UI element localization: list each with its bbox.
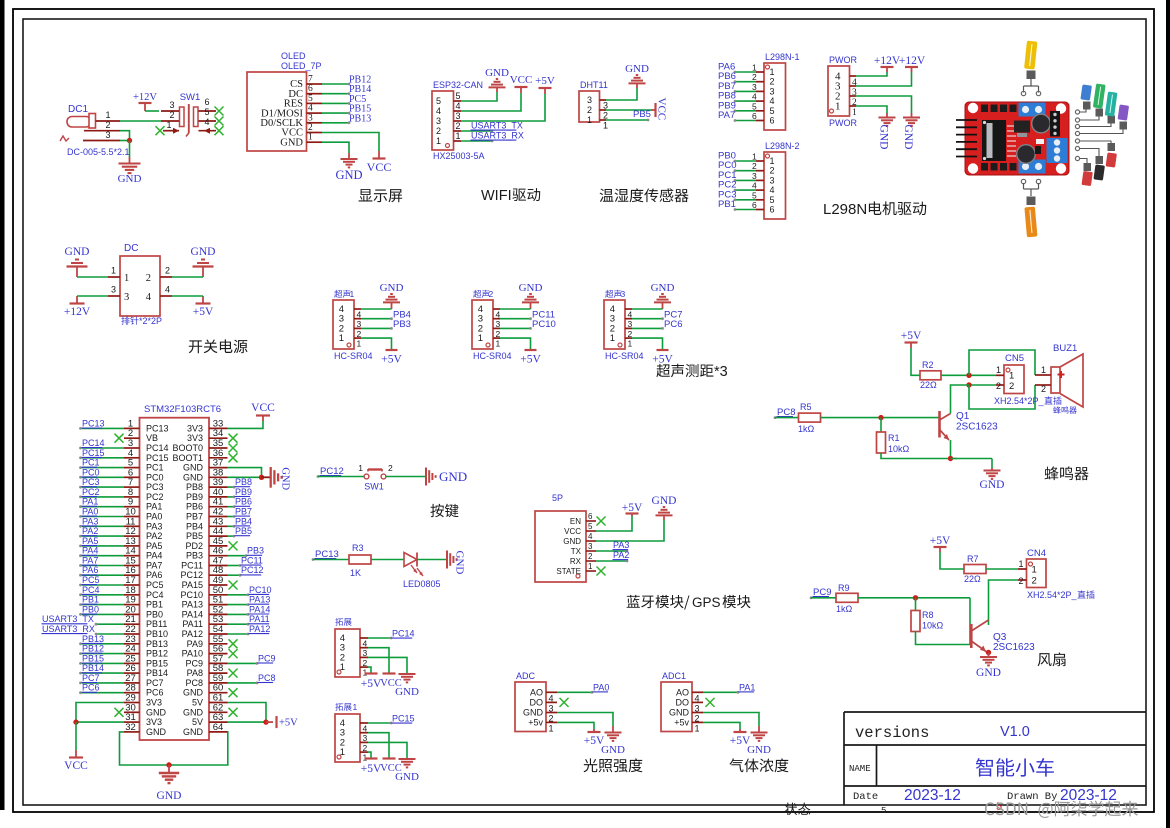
- net label PB6: [235, 497, 253, 507]
- svg-text:3: 3: [603, 101, 608, 111]
- svg-text:PB3: PB3: [247, 546, 264, 556]
- svg-text:PB15: PB15: [82, 653, 104, 663]
- pin 32 of U1 (GND): [124, 722, 167, 737]
- wire U1.32 GND bus: [120, 732, 170, 765]
- resistor R3 1K: [349, 543, 371, 578]
- svg-text:10kΩ: 10kΩ: [888, 444, 910, 454]
- svg-text:Date: Date: [853, 791, 878, 803]
- pin 37 of U1 (GND): [183, 458, 228, 473]
- svg-text:OLED: OLED: [281, 51, 306, 61]
- svg-text:6: 6: [308, 84, 313, 94]
- power +5V right: [266, 716, 298, 729]
- pin 1 of DHT11: [587, 115, 608, 131]
- svg-text:5V: 5V: [192, 698, 203, 708]
- svg-text:PA0: PA0: [82, 507, 98, 517]
- svg-text:GND: GND: [485, 67, 509, 79]
- net label PA13: [249, 595, 271, 605]
- pin 4 of OLED (D1/MOSI): [261, 104, 322, 120]
- svg-text:PC2: PC2: [146, 492, 164, 502]
- no-connect U1.49: [229, 581, 238, 590]
- svg-text:2: 2: [752, 72, 757, 82]
- svg-text:GND: GND: [280, 137, 303, 148]
- svg-text:PA11: PA11: [182, 619, 203, 629]
- svg-text:6: 6: [770, 116, 775, 126]
- pin 42 of U1 (PB7): [186, 507, 228, 522]
- pin 3 of 拓展: [340, 643, 368, 659]
- svg-text:3: 3: [111, 285, 116, 295]
- ground right of U1 (rotated): [262, 467, 291, 491]
- svg-text:1: 1: [1041, 365, 1046, 375]
- svg-text:+12V: +12V: [899, 55, 926, 67]
- net label PB9: [718, 100, 736, 111]
- net label PC15: [82, 448, 105, 458]
- svg-text:+12V: +12V: [133, 92, 157, 103]
- svg-text:PB1: PB1: [718, 199, 736, 210]
- svg-text:PC10: PC10: [180, 590, 203, 600]
- svg-text:R7: R7: [967, 554, 979, 564]
- wire DC.4 to +5V: [172, 295, 203, 297]
- svg-text:2: 2: [770, 166, 775, 176]
- svg-text:GND: GND: [335, 168, 362, 182]
- wire OLED pin to net PC5: [322, 102, 350, 105]
- svg-text:7: 7: [308, 75, 313, 85]
- wire ESP32.1 USART3_RX: [461, 140, 493, 143]
- net label PC2: [718, 180, 736, 191]
- svg-text:GND: GND: [146, 727, 167, 737]
- pin 63 of U1 (5V): [192, 712, 228, 727]
- svg-text:PB10: PB10: [146, 629, 168, 639]
- pin 3 of 超声1: [339, 314, 362, 330]
- pin 44 of U1 (PB5): [186, 526, 228, 541]
- svg-text:VCC: VCC: [510, 74, 533, 86]
- svg-text:CN4: CN4: [1027, 548, 1046, 559]
- section label 按键: [430, 504, 458, 517]
- pin 6 of SW1 (no connect): [199, 97, 224, 116]
- svg-text:3V3: 3V3: [187, 423, 203, 433]
- svg-text:2: 2: [165, 266, 170, 276]
- svg-text:2: 2: [996, 381, 1001, 391]
- svg-text:SW1: SW1: [180, 92, 201, 103]
- svg-text:+5V: +5V: [361, 678, 382, 690]
- pin 5 of ESP32-CAN: [436, 91, 461, 106]
- ground B below PWOR: [902, 113, 920, 149]
- wire R1 to emitter node: [881, 453, 957, 459]
- wire 超声3.2 net PC6: [632, 327, 664, 330]
- wire PWOR.1 to GND A: [856, 106, 887, 113]
- power +12V left of DC: [64, 296, 91, 318]
- pin 2 of PWOR: [835, 91, 857, 109]
- wire L298N-2.4: [734, 189, 756, 192]
- svg-text:1: 1: [852, 108, 857, 118]
- svg-text:PC2: PC2: [82, 487, 100, 497]
- svg-text:R5: R5: [800, 402, 812, 412]
- wire DC.2 to GND: [172, 276, 203, 278]
- wire U1.39 net PB8: [228, 486, 236, 489]
- svg-text:PC11: PC11: [241, 556, 263, 566]
- svg-text:3: 3: [770, 86, 775, 96]
- svg-text:+5V: +5V: [622, 502, 643, 514]
- module tag IN3-IN4 green: [1093, 83, 1106, 116]
- svg-text:BUZ1: BUZ1: [1053, 343, 1077, 354]
- svg-text:PC10: PC10: [532, 319, 556, 330]
- section label 显示屏: [359, 189, 403, 202]
- svg-text:PC4: PC4: [82, 585, 100, 595]
- svg-text:3: 3: [587, 95, 592, 105]
- pin 20 of U1 (PB0): [124, 604, 163, 619]
- svg-text:4: 4: [770, 96, 775, 106]
- wire +5V to R7: [940, 552, 964, 569]
- svg-text:OLED_7P: OLED_7P: [281, 61, 322, 71]
- net label PB0: [718, 151, 736, 162]
- wire 5P.3 TX net PA3: [596, 550, 628, 553]
- svg-text:PC15: PC15: [146, 453, 169, 463]
- svg-text:PB3: PB3: [186, 551, 203, 561]
- wire U1.20 net PB0: [79, 613, 124, 616]
- ground right of button (rotated): [426, 468, 467, 486]
- svg-text:USART3_TX: USART3_TX: [471, 121, 523, 131]
- svg-text:PA5: PA5: [82, 536, 98, 546]
- wire U1.12 net PA2: [79, 535, 124, 538]
- svg-text:GND: GND: [651, 282, 675, 294]
- pin 27 of U1 (PC7): [124, 673, 164, 688]
- svg-text:4: 4: [308, 104, 313, 114]
- wire OLED pin to net PB15: [322, 112, 350, 115]
- wire R3 to LED: [371, 559, 404, 561]
- pin 1 of L298N-2: [752, 152, 775, 167]
- svg-text:1K: 1K: [350, 568, 361, 578]
- svg-text:3: 3: [752, 171, 757, 181]
- net label PB12: [82, 644, 105, 654]
- svg-text:GND: GND: [280, 467, 291, 490]
- pin 3 of ESP32-CAN: [436, 111, 461, 126]
- svg-text:PA2: PA2: [82, 526, 98, 536]
- pin 12 of U1 (PA2): [124, 526, 162, 541]
- svg-text:PC3: PC3: [82, 477, 100, 487]
- svg-text:+5V: +5V: [520, 354, 541, 366]
- svg-text:PB6: PB6: [186, 502, 203, 512]
- wire L298N-1.3: [734, 90, 756, 93]
- push button SW1: [358, 463, 393, 492]
- svg-text:3V3: 3V3: [146, 717, 162, 727]
- svg-text:PA12: PA12: [182, 629, 203, 639]
- ground above 超声1: [380, 282, 404, 309]
- svg-text:AO: AO: [530, 687, 543, 697]
- pin 41 of U1 (PB6): [186, 497, 228, 512]
- net label PC5: [349, 94, 366, 105]
- connector ESP32-CAN (WIFI): [432, 80, 485, 161]
- ground above 超声2: [519, 282, 543, 309]
- pin 9 of U1 (PA1): [124, 497, 162, 512]
- pin 1 of SW1 (no connect): [156, 120, 180, 135]
- junction: [166, 762, 171, 767]
- pin 33 of U1 (3V3): [187, 418, 228, 433]
- wire DC1.3 to GND: [120, 140, 130, 142]
- pin 55 of U1 (PA9): [187, 634, 228, 649]
- net label PA6: [82, 565, 99, 575]
- svg-text:5P: 5P: [552, 493, 563, 503]
- svg-text:3: 3: [105, 130, 110, 140]
- svg-text:6: 6: [752, 111, 757, 121]
- svg-text:LED0805: LED0805: [403, 579, 441, 589]
- wire U1.18 net PC4: [79, 593, 124, 596]
- wire 拓展1.2 to GND: [368, 742, 407, 758]
- svg-text:PC0: PC0: [146, 472, 164, 482]
- svg-text:GND: GND: [157, 790, 182, 802]
- net label PB3: [393, 319, 411, 330]
- ground bottom of U1: [157, 765, 182, 802]
- net label PC11: [241, 556, 263, 566]
- wire L298N-1.2: [734, 80, 756, 83]
- svg-text:PC12: PC12: [241, 565, 264, 575]
- net label PC15: [392, 714, 415, 724]
- wire ADC1.4 AO net PA1: [703, 691, 739, 694]
- svg-text:PA3: PA3: [613, 540, 629, 550]
- pin 2 of 拓展1: [340, 737, 368, 753]
- svg-text:PA6: PA6: [146, 570, 162, 580]
- net label PA1: [82, 497, 99, 507]
- pin 45 of U1 (PD2): [185, 536, 227, 551]
- svg-text:5V: 5V: [192, 717, 203, 727]
- power +5V above ESP32: [535, 75, 555, 94]
- svg-text:PA9: PA9: [187, 639, 203, 649]
- pin 1 of ADC (+5v): [528, 717, 557, 733]
- pin 3 of ADC (DO): [530, 697, 558, 713]
- svg-text:PC3: PC3: [146, 482, 164, 492]
- ground above bluetooth: [652, 495, 677, 520]
- wire U1.40 net PB9: [228, 496, 236, 499]
- no-connect U1.36: [229, 453, 238, 462]
- svg-text:CN5: CN5: [1005, 353, 1024, 364]
- net label PC6: [82, 683, 100, 693]
- svg-text:5: 5: [456, 91, 461, 101]
- pin 4 of ADC1 (AO): [676, 687, 703, 703]
- wire loop bottom to speaker: [969, 385, 1035, 409]
- power +12V A above PWOR: [874, 55, 901, 72]
- wire U1.19 net PB1: [79, 603, 124, 606]
- wire L298N-1.5: [734, 109, 756, 112]
- svg-text:R3: R3: [352, 543, 364, 553]
- svg-text:+5V: +5V: [930, 535, 951, 547]
- wire L298N-1.4: [734, 100, 756, 103]
- svg-text:1: 1: [436, 136, 441, 146]
- wire L298N-2.6: [734, 208, 756, 211]
- wire L298N-1.6: [734, 119, 756, 122]
- section label WIFI驱动: [481, 188, 540, 204]
- power +12V B above PWOR: [899, 55, 926, 72]
- svg-text:PA1: PA1: [82, 497, 98, 507]
- svg-text:1: 1: [549, 723, 554, 733]
- svg-text:22Ω: 22Ω: [964, 574, 981, 584]
- module tag GND black: [1093, 156, 1104, 181]
- module wiring top OUT tag: [1021, 41, 1040, 96]
- net label PC14: [82, 438, 105, 448]
- svg-text:HC-SR04: HC-SR04: [334, 351, 373, 361]
- connector CN5 XH2.54*2P: [994, 353, 1045, 406]
- title block frame: [844, 712, 1146, 805]
- wire R9 to base: [858, 597, 970, 599]
- wire 超声2.3 net PC11: [500, 317, 532, 320]
- svg-text:R8: R8: [922, 610, 934, 620]
- wire R7 to CN4.1: [986, 568, 1018, 570]
- value label 蜂鸣器 small: [1053, 406, 1076, 413]
- wire U1.1 net PC13: [79, 427, 124, 430]
- resistor R1 10k: [877, 432, 910, 454]
- pin 49 of U1 (PA15): [182, 575, 228, 590]
- pin 19 of U1 (PB1): [124, 595, 163, 610]
- power +5V above bluetooth: [622, 502, 643, 516]
- net label PB15: [82, 653, 105, 663]
- net label PB8: [235, 477, 253, 487]
- wire CN4.2 to Q3 collector: [989, 580, 1019, 625]
- svg-text:PB14: PB14: [82, 663, 104, 673]
- net label PA4: [82, 546, 99, 556]
- wire ESP32.4 to VCC: [461, 93, 521, 111]
- ground below 拓展: [395, 674, 419, 698]
- net label PA14: [249, 604, 271, 614]
- svg-text:PC13: PC13: [82, 418, 105, 428]
- wire PWOR.4 to +12V A: [856, 72, 887, 76]
- svg-text:PB14: PB14: [146, 668, 168, 678]
- section label L298N电机驱动: [823, 201, 926, 218]
- svg-text:GND: GND: [669, 708, 690, 718]
- wire DHT11.3 to GND: [606, 88, 637, 100]
- wire U1.37 GND: [228, 468, 262, 478]
- pin 2 of L298N-2: [752, 161, 775, 176]
- net label PC7: [82, 673, 100, 683]
- pin 1 of OLED (GND): [280, 133, 322, 149]
- svg-text:GND: GND: [395, 771, 419, 783]
- svg-text:1: 1: [105, 110, 110, 120]
- svg-text:1: 1: [1018, 559, 1023, 569]
- svg-text:1: 1: [587, 115, 592, 125]
- pin 4 of U1 (PC15): [124, 448, 169, 463]
- net label PC1: [82, 458, 100, 468]
- svg-text:PA1: PA1: [739, 682, 755, 692]
- svg-text:1: 1: [496, 339, 501, 349]
- wire ESP32.2 USART3_TX: [461, 130, 493, 133]
- connector 拓展1 expansion: [335, 702, 360, 762]
- no-connect U1.34: [229, 434, 238, 443]
- svg-text:PC15: PC15: [82, 448, 105, 458]
- ground above 超声3: [651, 282, 675, 309]
- net label PB7: [235, 507, 253, 517]
- wire U1.5 net PC1: [79, 466, 124, 469]
- svg-text:+5V: +5V: [901, 330, 922, 342]
- svg-text:1: 1: [166, 120, 171, 130]
- svg-text:DC: DC: [124, 243, 138, 254]
- svg-text:PA11: PA11: [249, 614, 270, 624]
- wire PC13 to R3: [313, 559, 350, 561]
- section label 光照强度: [584, 758, 643, 772]
- power VCC top right: [251, 402, 275, 421]
- pin 5 of U1 (PC1): [124, 458, 164, 473]
- power +5V below ADC1: [730, 729, 751, 747]
- wire PWOR.3 to +12V B: [856, 72, 912, 86]
- svg-text:1: 1: [770, 156, 775, 166]
- svg-text:PC13: PC13: [146, 423, 169, 433]
- wire 超声3.4 to GND: [632, 308, 663, 310]
- svg-text:HC-SR04: HC-SR04: [473, 351, 512, 361]
- wire R5 to Q1 base: [821, 417, 939, 419]
- net label PB12: [349, 75, 371, 86]
- net label PA5: [82, 536, 99, 546]
- wire U1.50 net PC10: [228, 593, 250, 596]
- svg-text:HX25003-5A: HX25003-5A: [433, 151, 485, 161]
- wire Q3 emitter to GND: [986, 652, 989, 654]
- wire Q1 collector to CN5.2 node: [951, 385, 970, 414]
- svg-text:1: 1: [695, 723, 700, 733]
- pin 4 of 拓展: [340, 633, 368, 649]
- connector DC (switch power) 排针*2*2P: [120, 243, 162, 326]
- net label PA3: [82, 516, 99, 526]
- net label PC14: [392, 629, 415, 639]
- power VCC below 拓展1: [380, 759, 402, 775]
- svg-text:32: 32: [125, 722, 136, 733]
- svg-text:2: 2: [146, 273, 151, 284]
- svg-text:GND: GND: [118, 173, 142, 185]
- wire U1.61 5V: [228, 703, 267, 723]
- svg-text:1: 1: [752, 63, 757, 73]
- svg-text:Drawn By: Drawn By: [1007, 791, 1057, 803]
- svg-text:TX: TX: [571, 547, 582, 556]
- svg-text:DC1: DC1: [68, 104, 88, 115]
- pin 5 of L298N-2: [752, 190, 775, 205]
- wire ADC.1 +5V: [557, 722, 594, 729]
- net label PC0: [718, 160, 736, 171]
- pin 23 of U1 (PB13): [124, 634, 168, 649]
- pin 61 of U1 (5V): [192, 693, 228, 708]
- svg-text:4: 4: [165, 285, 170, 295]
- pin 7 of U1 (PC3): [124, 477, 164, 492]
- wire PWOR.2 to GND B: [856, 96, 912, 113]
- pin 4 of L298N-1: [752, 92, 775, 107]
- svg-text:PB13: PB13: [82, 634, 104, 644]
- section label 气体浓度: [729, 758, 788, 772]
- svg-text:+5V: +5V: [361, 763, 382, 775]
- svg-text:USART3_TX: USART3_TX: [42, 614, 94, 624]
- wire U1.13 net PA5: [79, 545, 124, 548]
- net label PC12: [317, 466, 344, 478]
- net label PA6: [718, 62, 735, 73]
- wire U1.9 net PA1: [79, 505, 124, 508]
- pin 6 of U1 (PC0): [124, 467, 164, 482]
- IC U1 STM32F103RCT6: [140, 404, 222, 740]
- pin 2 of ADC (GND): [523, 708, 557, 724]
- svg-text:2: 2: [752, 161, 757, 171]
- svg-text:2: 2: [587, 105, 592, 115]
- wire U1.38 GND: [228, 476, 262, 478]
- svg-text:PC6: PC6: [82, 683, 100, 693]
- ground below 拓展1: [395, 759, 419, 783]
- connector ADC light/gas sensor: [515, 671, 546, 732]
- svg-text:2: 2: [489, 289, 494, 299]
- section label 蓝牙模块/GPS模块: [627, 595, 751, 610]
- power +5V below 超声2: [520, 350, 541, 366]
- wire PC8 to R5: [775, 417, 798, 419]
- pin 2 of DC1: [84, 120, 120, 131]
- pin 47 of U1 (PC11): [181, 556, 227, 571]
- wire U1.24 net PB12: [79, 652, 124, 655]
- pin 3 of PWOR: [835, 81, 857, 99]
- wire U1.22 net USART3_RX: [95, 633, 124, 636]
- svg-text:1: 1: [628, 339, 633, 349]
- svg-text:+12V: +12V: [64, 306, 91, 318]
- svg-text:RX: RX: [570, 557, 582, 566]
- svg-text:USART3_RX: USART3_RX: [42, 624, 95, 634]
- svg-text:5: 5: [436, 96, 441, 106]
- wire U1.6 net PC0: [79, 476, 124, 479]
- net label PC8: [774, 407, 796, 419]
